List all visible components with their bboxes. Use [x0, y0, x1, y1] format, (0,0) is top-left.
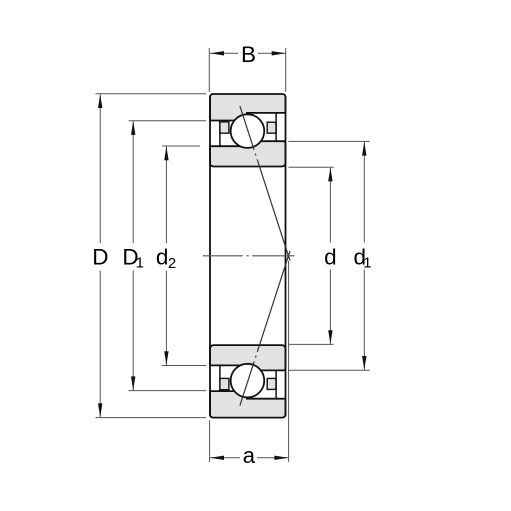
D1 dimension line	[132, 121, 134, 243]
B extension line left	[208, 48, 210, 92]
B dimension line	[210, 52, 238, 54]
ball (bottom)	[231, 364, 265, 398]
d2 extension bottom	[162, 365, 206, 367]
D1 extension bottom	[129, 390, 206, 392]
d1 extension bottom	[288, 369, 369, 371]
cage pocket square left (top)	[220, 122, 229, 133]
D arrow up	[98, 94, 102, 108]
outer ring (bottom cross-section)	[210, 391, 286, 418]
ball (top)	[231, 114, 265, 148]
cage pocket square right (bottom)	[267, 378, 276, 389]
d extension bottom	[288, 343, 333, 345]
svg-text:a: a	[243, 443, 256, 468]
D extension bottom	[96, 417, 207, 419]
inner ring (top cross-section)	[210, 141, 286, 166]
svg-text:d: d	[324, 245, 337, 270]
d1 dimension line	[363, 142, 365, 243]
D1 extension top	[129, 120, 206, 122]
svg-text:d: d	[156, 245, 169, 270]
d2 dimension line	[165, 147, 167, 243]
D1 arrow up	[131, 121, 135, 135]
contact angle line (bottom, dash-dot)	[240, 251, 290, 406]
inner ring (bottom cross-section)	[210, 345, 286, 370]
outer ring (top cross-section)	[210, 94, 286, 121]
d arrow down	[328, 330, 332, 344]
arrowheads	[98, 51, 367, 460]
bearing axis centerline (dash-dot)	[203, 255, 295, 257]
contact angle line (top, dash-dot)	[240, 106, 290, 261]
D arrow down	[98, 403, 102, 417]
d extension top	[288, 166, 333, 168]
cage bar left (bottom)	[219, 365, 221, 391]
d2 arrow down	[164, 351, 168, 365]
bearing right edge	[285, 96, 287, 416]
a arrow right	[274, 456, 288, 460]
svg-text:1: 1	[136, 255, 144, 272]
B extension line right	[285, 48, 287, 92]
a dimension line	[210, 457, 240, 459]
cage pocket square left (bottom)	[220, 378, 229, 389]
a extension line right (from pressure centre)	[288, 261, 290, 462]
d arrow up	[328, 168, 332, 182]
d2 arrow up	[164, 146, 168, 160]
a extension line left	[209, 420, 211, 462]
d1 arrow up	[362, 142, 366, 156]
a arrow left	[210, 456, 224, 460]
B arrow left	[210, 51, 224, 55]
cage bar left (top)	[219, 121, 221, 147]
d2 extension top	[162, 145, 200, 147]
svg-text:1: 1	[363, 255, 371, 272]
D1 arrow down	[131, 376, 135, 390]
cage pocket square right (top)	[267, 122, 276, 133]
D dimension line	[99, 95, 101, 244]
cage bar right (top)	[275, 113, 277, 141]
B arrow right	[272, 51, 286, 55]
d1 arrow down	[362, 356, 366, 370]
D extension top	[96, 93, 207, 95]
d dimension line	[329, 168, 331, 243]
bearing left edge	[209, 96, 211, 416]
svg-text:D: D	[92, 245, 108, 270]
d1 extension top	[288, 140, 369, 142]
cage bar right (bottom)	[275, 370, 277, 398]
svg-text:2: 2	[168, 255, 176, 272]
svg-text:B: B	[241, 42, 256, 67]
